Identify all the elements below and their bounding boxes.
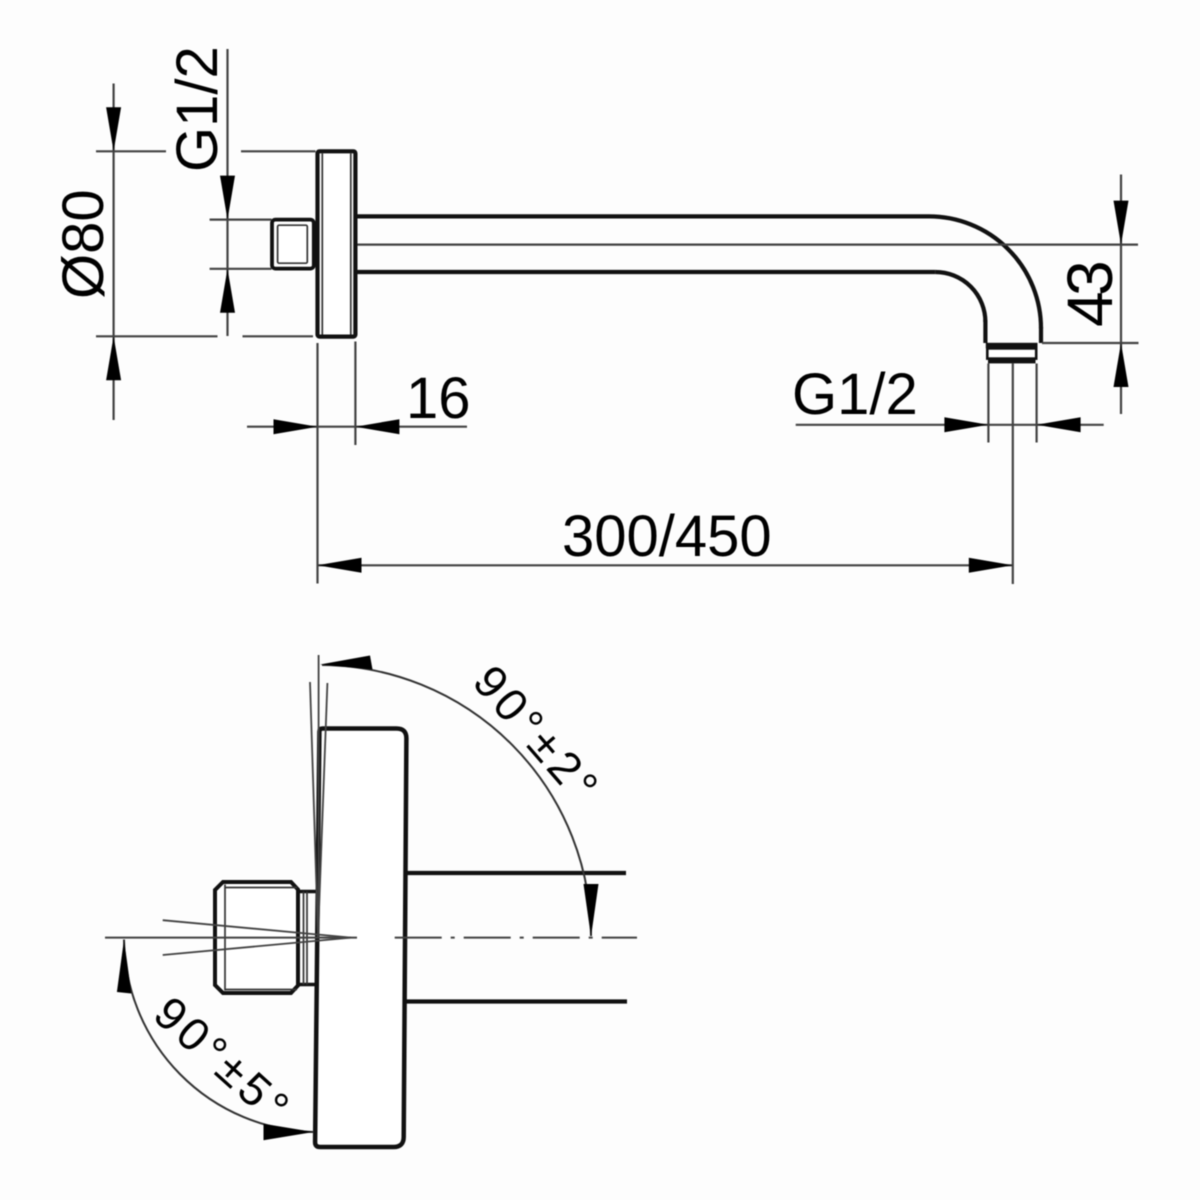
arrow D80 top [106, 107, 121, 151]
arrow G1/2 outlet right [1037, 417, 1081, 432]
nipple thread root bottom [225, 989, 297, 991]
dimension line D80 [112, 84, 114, 421]
arrow G1/2 wall bottom [220, 269, 235, 313]
arrow 300/450 left [318, 558, 362, 573]
arrow arc5 top [117, 940, 131, 994]
arrow 43 top [1114, 201, 1129, 245]
dimension line 16 [247, 426, 467, 428]
threaded nipple side view [215, 882, 298, 993]
extension line: flange right edge below [354, 342, 356, 446]
extension line: outlet right [1035, 364, 1037, 443]
arrow 16 right [355, 419, 399, 434]
arrow 43 bottom [1114, 343, 1129, 387]
nipple neck bottom [298, 983, 316, 987]
nipple thread root top [225, 887, 297, 889]
arm tube: bottom outer line [357, 270, 935, 274]
outlet thread end: band outline [987, 348, 1036, 358]
centre line left solid [105, 937, 357, 939]
arc 90+-5 [124, 940, 314, 1133]
arm tube: inner bend arc [935, 272, 985, 322]
wall flange (escutcheon) side view [318, 151, 356, 336]
arm tube: top outer line [357, 214, 929, 218]
svg-text:G1/2: G1/2 [165, 46, 230, 172]
tolerance fan -2 [318, 683, 327, 937]
arm tube top line [406, 871, 626, 875]
outlet centre line [1012, 364, 1014, 585]
svg-text:90°±2°: 90°±2° [463, 655, 611, 814]
threaded nipple (wall side) [272, 220, 314, 269]
flange plate side view [315, 729, 406, 1148]
outlet thread end: upper bar [986, 343, 1038, 349]
arc 90+-2 [322, 665, 591, 936]
nipple thread root left [224, 885, 226, 991]
nipple neck ring 1 [303, 892, 305, 985]
nipple neck ring 2 [306, 892, 308, 985]
extension line: outlet left [987, 364, 989, 443]
dimension line 300/450 [318, 564, 1013, 566]
arrow D80 bottom [106, 336, 121, 380]
tolerance fan +5 [163, 920, 351, 937]
arrow arc5 bottom [264, 1124, 314, 1141]
svg-text:Ø80: Ø80 [51, 189, 116, 299]
vertical reference line [318, 655, 320, 935]
extension line: nipple bottom [210, 268, 272, 270]
dimension line G1/2 wall [226, 49, 228, 336]
extension line: flange bottom (D80) [96, 335, 218, 337]
tolerance fan -5 [163, 938, 351, 955]
nipple thread core [278, 225, 308, 263]
extension line: wall face below flange [316, 343, 318, 584]
svg-text:300/450: 300/450 [562, 504, 772, 569]
tolerance fan +2 [310, 682, 318, 937]
arrow G1/2 outlet left [944, 417, 988, 432]
arrow arc2 top [320, 656, 373, 670]
arrow arc2 bottom [584, 884, 599, 937]
dimension line G1/2 outlet [796, 424, 1104, 426]
centre line dash-dot right [395, 937, 637, 939]
extension line: flange top (D80) [96, 150, 166, 152]
arrow G1/2 wall top [220, 176, 235, 220]
nipple neck top [298, 890, 316, 894]
svg-text:G1/2: G1/2 [792, 362, 918, 427]
flange inner edge line left [321, 154, 323, 335]
extension line: nipple top [210, 219, 272, 221]
dimension line 43 [1120, 175, 1122, 415]
arrow 300/450 right [969, 558, 1013, 573]
arrow 16 left [274, 419, 318, 434]
arm tube: outer right edge of outlet [1039, 327, 1043, 343]
flange inner edge line right [350, 154, 352, 335]
outlet thread end: lower bar [988, 359, 1036, 364]
arm tube: outer bend arc [929, 216, 1041, 328]
arm tube bottom line [406, 999, 627, 1003]
svg-text:43: 43 [1054, 263, 1126, 327]
svg-text:16: 16 [406, 366, 471, 431]
extension line: 43 bottom [1042, 342, 1139, 344]
arm tube: middle seam line [357, 244, 1138, 246]
arm tube: inner left edge of outlet [983, 320, 987, 343]
